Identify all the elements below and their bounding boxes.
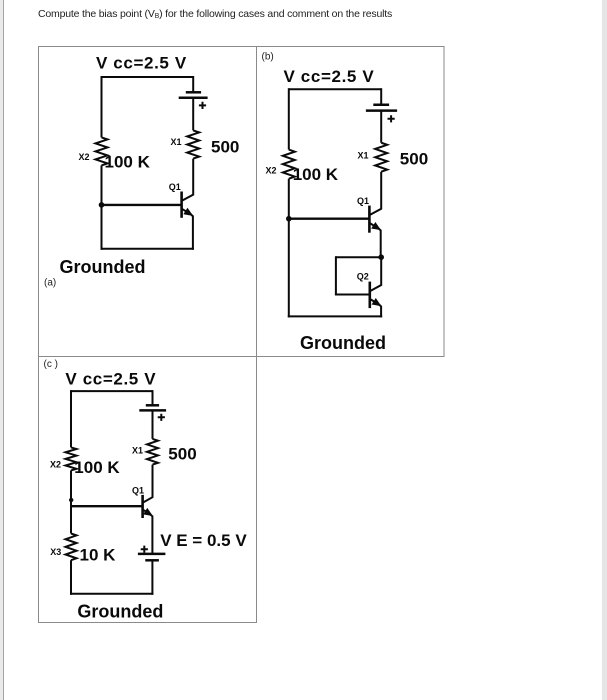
svg-text:V E = 0.5 V: V E = 0.5 V	[160, 531, 247, 550]
svg-text:Q2: Q2	[357, 271, 369, 281]
battery 2.5V symbol (b)	[366, 105, 397, 123]
wire (b) base wire	[289, 217, 370, 219]
wire (c) VE battery to bottom	[151, 560, 153, 595]
wire (a) left rail lower (X2 to bottom)	[101, 165, 103, 249]
wire (c) battery to X1	[152, 410, 154, 439]
wire (c) base wire	[71, 505, 143, 507]
svg-text:100 K: 100 K	[74, 458, 120, 477]
wire (c) X1 to collector	[143, 465, 153, 503]
resistor X2 (c) 100K	[66, 447, 77, 470]
svg-text:(c ): (c )	[44, 359, 58, 370]
svg-text:X3: X3	[50, 547, 61, 557]
battery 2.5V symbol (a)	[179, 92, 208, 109]
wire (a) bottom rail	[101, 248, 194, 250]
wire (b) top rail	[289, 88, 381, 90]
svg-text:V cc=2.5 V: V cc=2.5 V	[65, 370, 156, 389]
wire (b) left rail lower (X2 to bottom)	[288, 179, 290, 318]
svg-text:Grounded: Grounded	[300, 333, 386, 353]
wire (b) battery to X1	[380, 111, 382, 143]
wire (a) emitter down	[191, 214, 193, 249]
wire (c) emitter down to VE battery	[150, 515, 152, 554]
wire (b) bottom rail	[288, 315, 382, 317]
wire (a) right rail stub (Vcc to battery)	[192, 76, 194, 92]
svg-text:X2: X2	[266, 166, 277, 176]
wire (c) left rail middle (X2 to X3)	[70, 470, 72, 533]
svg-text:X2: X2	[79, 152, 90, 162]
svg-text:V cc=2.5 V: V cc=2.5 V	[96, 53, 187, 72]
resistor X3 (c) 10K	[66, 534, 77, 561]
wire (b) left rail upper (Vcc to X2)	[288, 88, 290, 149]
wire (b) feedback loop bottom (to Q2 base)	[335, 294, 370, 296]
svg-text:(a): (a)	[44, 278, 56, 289]
resistor X1 (a) 500	[187, 130, 199, 158]
wire (c) left rail lower (X3 to bottom)	[70, 560, 72, 595]
wire (c) bottom rail	[70, 593, 153, 595]
svg-text:10 K: 10 K	[80, 546, 117, 565]
battery VE 0.5V symbol (c)	[138, 546, 166, 561]
wire (c) top rail	[71, 390, 153, 392]
svg-text:Grounded: Grounded	[77, 601, 163, 621]
wire (a) X1 to collector	[182, 159, 194, 201]
transistor Q1 (b) NPN	[369, 206, 380, 233]
transistor Q2 (b) NPN	[370, 282, 381, 309]
svg-text:Grounded: Grounded	[60, 257, 146, 277]
svg-text:(b): (b)	[262, 52, 274, 63]
transistor Q1 (c) NPN	[143, 495, 152, 518]
wire (a) top rail	[102, 76, 194, 78]
svg-text:Q1: Q1	[169, 182, 181, 192]
resistor X2 (a) 100K	[96, 137, 108, 165]
resistor X1 (c) 500	[147, 439, 158, 465]
wire (c) left rail upper (Vcc to X2)	[70, 390, 72, 447]
junction node dot (c) base node	[69, 498, 73, 502]
junction node dot (a) base node	[99, 202, 105, 208]
svg-text:Q1: Q1	[132, 486, 144, 496]
wire (b) feedback loop left side	[335, 256, 337, 294]
wire (c) right rail stub (Vcc to battery)	[152, 390, 154, 405]
svg-text:500: 500	[211, 138, 239, 157]
wire (b) Q2 collector up to node	[370, 257, 381, 291]
junction node dot (b) base node	[286, 216, 292, 222]
wire (b) feedback loop top (node to left)	[336, 256, 381, 258]
wire (b) X1 to collector	[369, 172, 381, 215]
svg-text:100 K: 100 K	[105, 152, 151, 171]
wire (a) battery to X1	[192, 98, 194, 131]
svg-text:V cc=2.5 V: V cc=2.5 V	[284, 67, 375, 86]
svg-text:X2: X2	[50, 459, 61, 469]
resistor X2 (b) 100K	[283, 150, 295, 179]
svg-text:Q1: Q1	[357, 196, 369, 206]
wire (a) base wire	[102, 204, 182, 206]
junction node dot (b) Q1 emitter / Q2 collector node	[378, 254, 384, 260]
transistor Q1 (a) NPN	[182, 192, 193, 218]
svg-text:X1: X1	[132, 445, 143, 455]
wire (a) left rail upper (Vcc to X2)	[101, 76, 103, 137]
wire (b) Q2 emitter down	[379, 305, 381, 318]
svg-text:500: 500	[168, 444, 196, 463]
svg-text:X1: X1	[171, 137, 182, 147]
resistor X1 (b) 500	[375, 143, 387, 172]
battery 2.5V symbol (c)	[139, 405, 166, 421]
svg-text:500: 500	[400, 149, 428, 168]
wire (b) right rail stub (Vcc to battery)	[380, 88, 382, 105]
wire (b) Q1 emitter down to node	[379, 229, 381, 258]
svg-text:X1: X1	[358, 151, 369, 161]
svg-text:100 K: 100 K	[293, 165, 339, 184]
